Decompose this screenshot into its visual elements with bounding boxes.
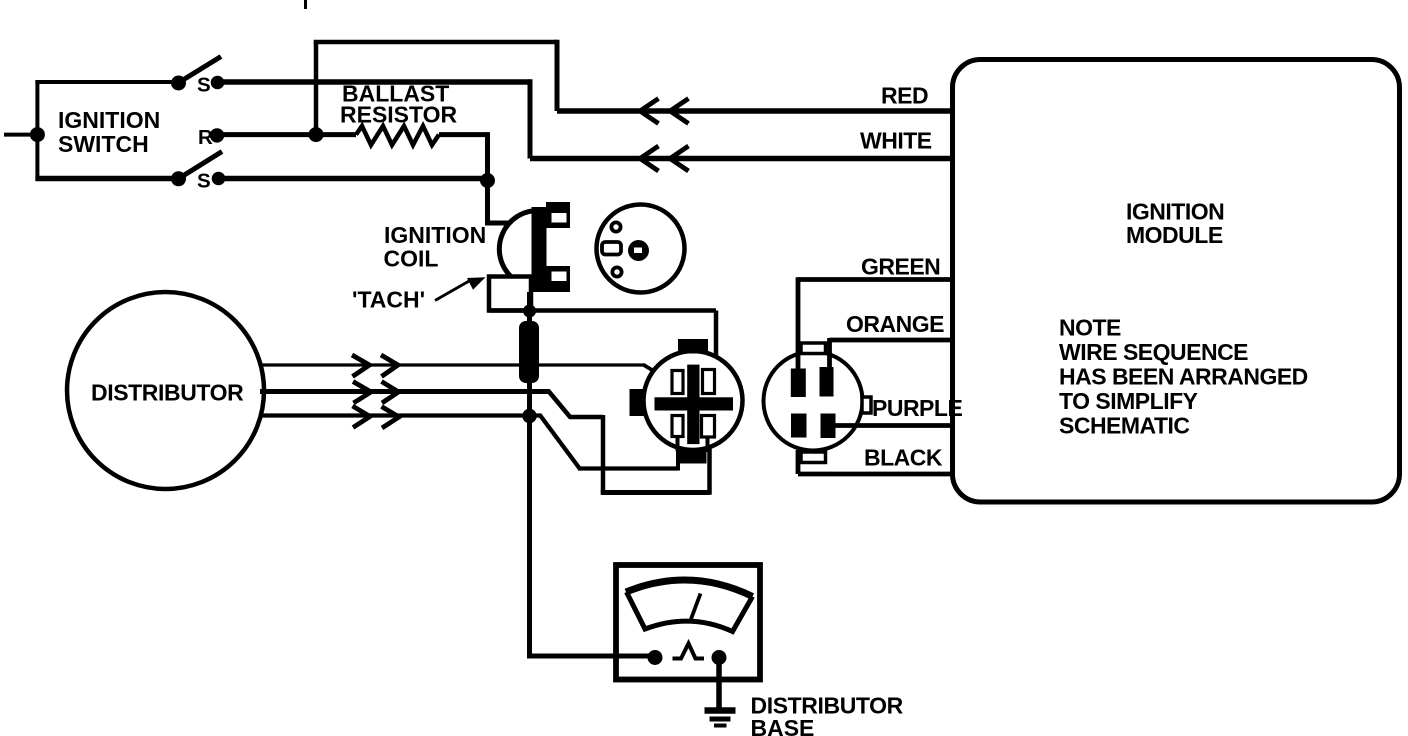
svg-text:'TACH': 'TACH' <box>352 287 425 313</box>
svg-text:COIL: COIL <box>384 246 439 272</box>
svg-text:S: S <box>197 74 211 97</box>
svg-text:BASE: BASE <box>751 715 815 736</box>
svg-text:PURPLE: PURPLE <box>872 395 962 421</box>
svg-text:WIRE SEQUENCE: WIRE SEQUENCE <box>1059 339 1248 365</box>
svg-text:IGNITION: IGNITION <box>58 107 160 133</box>
svg-text:SWITCH: SWITCH <box>58 131 149 157</box>
svg-text:NOTE: NOTE <box>1059 315 1121 341</box>
svg-text:WHITE: WHITE <box>860 128 932 154</box>
svg-text:RESISTOR: RESISTOR <box>340 102 458 128</box>
svg-text:DISTRIBUTOR: DISTRIBUTOR <box>91 380 244 406</box>
svg-text:ORANGE: ORANGE <box>846 311 944 337</box>
svg-text:R: R <box>198 126 213 149</box>
svg-text:SCHEMATIC: SCHEMATIC <box>1059 413 1190 439</box>
svg-text:GREEN: GREEN <box>861 254 940 280</box>
svg-text:BLACK: BLACK <box>864 445 943 471</box>
svg-text:IGNITION: IGNITION <box>384 222 486 248</box>
svg-text:S: S <box>197 170 211 193</box>
svg-text:HAS BEEN ARRANGED: HAS BEEN ARRANGED <box>1059 364 1308 390</box>
svg-text:RED: RED <box>881 83 928 109</box>
svg-text:IGNITION: IGNITION <box>1126 199 1224 225</box>
svg-text:MODULE: MODULE <box>1126 222 1223 248</box>
svg-text:TO SIMPLIFY: TO SIMPLIFY <box>1059 388 1198 414</box>
